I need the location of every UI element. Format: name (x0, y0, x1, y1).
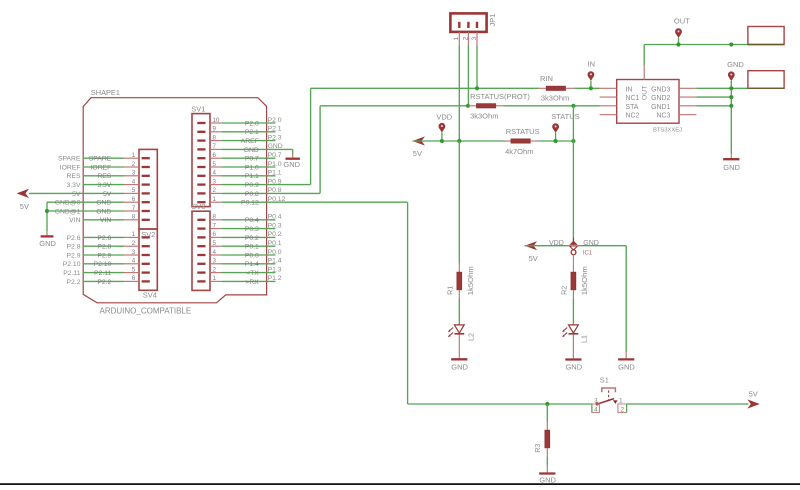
svg-text:P1.0: P1.0 (268, 161, 282, 168)
SV3 pin 4 row / net P0.0 (197, 249, 282, 260)
connector SV3 box (192, 211, 210, 290)
pin GND3 lead (679, 87, 696, 89)
svg-text:P2.9: P2.9 (97, 252, 111, 259)
svg-text:GND: GND (618, 363, 635, 372)
SV1 pin 3 row P0.9 / net P0.9 (197, 178, 310, 189)
pin GND2 lead (679, 96, 696, 98)
svg-text:SPARE: SPARE (89, 156, 112, 163)
svg-text:P0.2: P0.2 (268, 231, 282, 238)
svg-text:SV3: SV3 (191, 202, 205, 211)
svg-text:P0.0: P0.0 (268, 249, 282, 256)
svg-text:GND: GND (727, 60, 744, 69)
svg-text:OUT: OUT (674, 17, 690, 26)
svg-text:SV4: SV4 (143, 291, 157, 300)
SV3 pin 1 row / net P1.2 (197, 275, 282, 286)
SV3 pin 7 row / net P0.3 (197, 222, 282, 233)
svg-text:GND: GND (283, 160, 300, 169)
resistor R1 1k5Ohm (446, 263, 475, 298)
svg-text:P2.9: P2.9 (67, 252, 81, 259)
svg-text:6: 6 (213, 231, 217, 238)
JP1 pin 2 lead + wire (467, 32, 469, 106)
svg-text:NC1: NC1 (626, 95, 640, 102)
svg-text:3: 3 (213, 178, 217, 185)
wire net P0.8/STATUS(PROT) riser (319, 106, 321, 194)
SV2 pin 5 row P2.11 (63, 266, 150, 277)
svg-text:P2.3: P2.3 (268, 134, 282, 141)
resistor R3 (533, 422, 550, 457)
svg-text:3: 3 (213, 258, 217, 265)
SV2 pin 4 row P2.10 (63, 258, 150, 269)
svg-text:GND@1: GND@1 (55, 208, 81, 215)
svg-text:P2.11: P2.11 (94, 270, 111, 277)
svg-text:AREF: AREF (241, 138, 259, 145)
bottom border line (0, 483, 800, 485)
svg-text:R1: R1 (446, 286, 455, 295)
svg-text:P0.1: P0.1 (268, 240, 282, 247)
svg-text:GND: GND (723, 163, 740, 172)
switch S1 (596, 375, 618, 405)
svg-text:1k5Ohm: 1k5Ohm (580, 266, 589, 295)
SV1 pin 10 row P2.0 / net P2.0 (197, 117, 282, 128)
wire bottom net down to R3 (546, 404, 548, 422)
svg-text:5: 5 (213, 161, 217, 168)
SV4 pin 5 row 5V / net 5V (29, 187, 150, 198)
resistor RIN 3k3Ohm (538, 74, 574, 102)
5V supply arrow at IC1 (525, 241, 538, 263)
svg-text:4: 4 (594, 406, 598, 413)
svg-text:P0.3: P0.3 (268, 222, 282, 229)
pin OUT lead top (643, 66, 645, 80)
SV2 pin 3 row P2.9 (67, 249, 150, 260)
svg-text:L2: L2 (467, 333, 476, 341)
svg-text:RIN: RIN (540, 74, 553, 83)
svg-text:P0.7: P0.7 (245, 156, 259, 163)
svg-text:4: 4 (213, 170, 217, 177)
junction STA / STATUS riser (571, 104, 575, 108)
svg-text:3.3V: 3.3V (67, 182, 81, 189)
SV4 pin 4 row 3.3V / net 3.3V (67, 178, 150, 189)
svg-text:SV1: SV1 (191, 105, 205, 114)
wire net RSTATUS(PROT) horizontal (320, 105, 599, 107)
svg-text:RSTATUS: RSTATUS (506, 127, 540, 136)
SV3 pin 8 row / net P0.4 (197, 214, 282, 225)
wire net 5V horizontal (RSTATUS wire) (413, 140, 574, 142)
svg-text:<TX: <TX (246, 270, 259, 277)
ground symbol below R3 (539, 466, 556, 485)
svg-text:P2.11: P2.11 (63, 270, 80, 277)
svg-text:IN: IN (588, 59, 596, 68)
svg-text:VIN: VIN (69, 217, 80, 224)
svg-text:P0.8: P0.8 (245, 191, 259, 198)
svg-text:1: 1 (132, 152, 136, 159)
svg-text:NC3: NC3 (657, 113, 671, 120)
svg-text:5: 5 (132, 266, 136, 273)
wire bottom net to switch (408, 403, 592, 405)
svg-text:5V: 5V (749, 390, 758, 399)
supply symbol OUT (674, 17, 690, 45)
svg-text:4: 4 (132, 178, 136, 185)
svg-text:P0.1: P0.1 (245, 244, 259, 251)
svg-text:VDD: VDD (436, 113, 452, 122)
svg-text:5V: 5V (529, 254, 538, 263)
junction OUT (676, 42, 680, 46)
SV1 pin 8 row AREF / net P2.3 (197, 134, 282, 145)
svg-text:IC1: IC1 (583, 251, 593, 257)
svg-text:P0.12: P0.12 (241, 200, 259, 207)
wire 5V to IC1 VDD (525, 245, 569, 247)
S1 pin 4 box with stub (592, 404, 600, 413)
svg-text:2: 2 (621, 406, 625, 413)
svg-text:GND: GND (268, 143, 283, 150)
connector SV1 box (192, 114, 210, 207)
wire net GND right (696, 81, 784, 154)
svg-text:P2.8: P2.8 (97, 244, 111, 251)
LED L1 (562, 325, 589, 343)
SV1 pin 2 row P0.8 / net P0.8 (197, 187, 320, 198)
svg-text:P1.1: P1.1 (245, 173, 259, 180)
svg-text:STATUS: STATUS (551, 112, 579, 121)
pin NC3 stub (679, 114, 696, 116)
svg-text:R3: R3 (533, 444, 542, 453)
svg-text:STA: STA (626, 104, 639, 111)
svg-text:5V: 5V (103, 191, 112, 198)
svg-text:5V: 5V (72, 191, 81, 198)
supply symbol VDD (436, 113, 452, 142)
svg-text:P2.0: P2.0 (245, 120, 259, 127)
ground symbol below SV4 (39, 231, 56, 248)
svg-text:GND: GND (39, 239, 56, 248)
svg-text:P0.7: P0.7 (268, 152, 282, 159)
svg-text:P2.2: P2.2 (97, 279, 111, 286)
SV3 pin 2 row / net P1.3 (197, 266, 282, 277)
svg-text:6: 6 (132, 275, 136, 282)
svg-text:VIN: VIN (100, 217, 111, 224)
wire net OUT (644, 45, 784, 66)
ground symbol right of SV1 pin 7 (283, 149, 300, 169)
junction GND3 (729, 86, 733, 90)
SV2 pin 1 row P2.6 (67, 231, 150, 242)
LED L2 (448, 325, 476, 341)
frame SHAPE1 outline (ARDUINO_COMPATIBLE board shape) (83, 98, 266, 303)
SV4 pin 3 row RES / net RES (67, 170, 150, 181)
SV1 pin 7 row GND / net GND (197, 143, 292, 154)
svg-text:SPARE: SPARE (58, 156, 81, 163)
svg-text:P0.2: P0.2 (245, 235, 259, 242)
IC1 power symbol (VDD/GND) (549, 237, 599, 256)
svg-text:4k7Ohm: 4k7Ohm (505, 147, 533, 156)
SV4 pin 2 row IOREF / net IOREF (60, 161, 150, 172)
SV2 pin 2 row P2.8 (67, 240, 150, 251)
svg-text:3k3Ohm: 3k3Ohm (470, 112, 498, 121)
ground symbol below IC (723, 154, 740, 173)
SV4 pin 6 row GND / net GND@0 (47, 196, 150, 207)
svg-text:1: 1 (213, 275, 217, 282)
svg-text:P1.0: P1.0 (245, 164, 259, 171)
svg-text:P1.1: P1.1 (268, 170, 282, 177)
svg-text:P0.0: P0.0 (245, 252, 259, 259)
SV1 pin 9 row P2.1 / net P2.1 (197, 126, 282, 137)
pin NC2 stub (600, 114, 617, 116)
junction STATUS (554, 139, 558, 143)
wire R3 to ground (546, 457, 548, 466)
wire switch to 5V arrow right (627, 403, 749, 405)
junction JP1 pin2 / STATUS(PROT) net (466, 104, 470, 108)
JP1 pin 3 lead + wire (476, 32, 478, 88)
svg-text:JP1: JP1 (488, 14, 497, 27)
connector SV4 upper section box (139, 149, 157, 229)
svg-text:P0.4: P0.4 (245, 217, 259, 224)
wire net IN horizontal (top wire) (311, 87, 600, 89)
supply symbol STATUS (551, 112, 579, 141)
svg-text:RES: RES (67, 173, 81, 180)
svg-text:GND: GND (565, 363, 582, 372)
svg-text:SHAPE1: SHAPE1 (91, 88, 120, 97)
svg-text:GND1: GND1 (651, 104, 670, 111)
svg-text:P2.0: P2.0 (268, 117, 282, 124)
SV1 pin 4 row P1.1 / net P1.1 (197, 170, 282, 181)
svg-text:P2.10: P2.10 (94, 261, 112, 268)
svg-text:P0.12: P0.12 (268, 196, 286, 203)
wire JP1 pin1 net down to R1 (458, 141, 460, 263)
svg-text:8: 8 (132, 214, 136, 221)
svg-text:3: 3 (594, 397, 598, 404)
svg-text:1: 1 (619, 397, 623, 404)
svg-text:P2.2: P2.2 (67, 279, 81, 286)
wire net P0.12 riser down (407, 202, 409, 404)
SV4 pin 1 row SPARE / net SPARE (58, 152, 150, 163)
terminal pad OUT (rectangle) (748, 27, 784, 45)
junction OUT wire (729, 42, 733, 46)
svg-text:P0.9: P0.9 (245, 182, 259, 189)
SV1 pin 5 row P1.0 / net P1.0 (197, 161, 282, 172)
junction IN (589, 86, 593, 90)
svg-text:1: 1 (132, 231, 136, 238)
ground symbol below L1 (565, 360, 582, 372)
ground symbol for IC1 (618, 352, 635, 372)
connector JP1 (450, 13, 486, 32)
svg-text:8: 8 (213, 214, 217, 221)
SV3 pin 5 row / net P0.1 (197, 240, 282, 251)
svg-text:RES: RES (97, 173, 111, 180)
svg-text:IOREF: IOREF (60, 164, 81, 171)
svg-text:3: 3 (132, 170, 136, 177)
connector SV2 lower section box (139, 229, 157, 290)
wire R2 to LED L1 (572, 299, 574, 325)
wire R1 to LED L2 (458, 299, 460, 325)
junction VDD (440, 139, 444, 143)
junction GND2 (729, 95, 733, 99)
wire GND net vertical at SV4 (46, 202, 48, 231)
S1 pin 2 box with stub (618, 404, 627, 413)
svg-text:GND: GND (244, 147, 259, 154)
svg-text:GND: GND (96, 208, 111, 215)
5V supply arrow right (747, 390, 760, 409)
ground symbol below L2 (451, 359, 468, 371)
resistor R2 1k5Ohm (560, 266, 589, 298)
pin IN lead (600, 87, 617, 89)
lead LED L2 to ground (458, 335, 460, 359)
SV1 pin 6 row P0.7 / net P0.7 (197, 152, 282, 163)
svg-text:1: 1 (213, 196, 217, 203)
svg-text:OUT: OUT (641, 86, 648, 100)
junction wire3 corner (571, 139, 575, 143)
resistor RSTATUS 4k7Ohm (505, 127, 539, 156)
svg-text:6: 6 (132, 196, 136, 203)
SV1 pin 1 row P0.12 / net P0.12 (197, 196, 407, 207)
supply symbol GND (727, 60, 744, 81)
svg-text:1k5Ohm: 1k5Ohm (466, 266, 475, 295)
lead LED L1 to ground (572, 335, 574, 359)
SV4 pin 8 row VIN / net VIN (69, 214, 150, 225)
svg-text:R2: R2 (560, 286, 569, 295)
pin STA lead (600, 105, 617, 107)
SV2 pin 6 row P2.2 (67, 275, 150, 286)
svg-text:P2.1: P2.1 (268, 126, 282, 133)
pin NC1 stub (600, 96, 617, 98)
svg-text:RSTATUS(PROT): RSTATUS(PROT) (470, 92, 530, 101)
svg-text:8: 8 (213, 134, 217, 141)
svg-text:5V: 5V (413, 149, 422, 158)
svg-text:9: 9 (213, 126, 217, 133)
terminal pad GND (rectangle) (748, 71, 784, 89)
svg-text:GND: GND (539, 475, 556, 484)
svg-text:P2.6: P2.6 (97, 235, 111, 242)
svg-text:P2.6: P2.6 (67, 235, 81, 242)
svg-text:P2.1: P2.1 (245, 129, 259, 136)
op-amp/driver U1 BTS3XXEJ box (617, 80, 679, 124)
svg-text:2: 2 (132, 240, 136, 247)
svg-text:IN: IN (626, 86, 633, 93)
svg-text:10: 10 (213, 117, 220, 124)
SV4 pin 7 row GND / net GND@1 (47, 205, 150, 216)
svg-text:6: 6 (213, 152, 217, 159)
svg-text:2: 2 (132, 161, 136, 168)
svg-text:2: 2 (213, 187, 217, 194)
wire IC1 GND to ground (578, 246, 626, 352)
svg-text:5: 5 (213, 240, 217, 247)
5V supply arrow mid (413, 136, 426, 158)
svg-text:7: 7 (213, 222, 217, 229)
svg-text:GND3: GND3 (651, 86, 670, 93)
JP1 pin 1 lead + wire down to R1 net (458, 32, 460, 141)
svg-text:4: 4 (213, 249, 217, 256)
svg-text:P0.3: P0.3 (245, 226, 259, 233)
svg-text:GND@0: GND@0 (55, 200, 81, 207)
lead IC1 GND pin to R2 (572, 254, 574, 272)
svg-text:P0.9: P0.9 (268, 178, 282, 185)
svg-text:GND2: GND2 (651, 95, 670, 102)
junction R1 top (457, 139, 461, 143)
svg-text:L1: L1 (580, 335, 589, 343)
svg-text:P1.4: P1.4 (268, 258, 282, 265)
svg-text:7: 7 (132, 205, 136, 212)
svg-text:GND: GND (96, 200, 111, 207)
svg-text:2: 2 (213, 266, 217, 273)
svg-text:>RX: >RX (245, 279, 259, 286)
svg-text:GND: GND (451, 363, 468, 372)
wire STATUS riser down to IC1 (572, 106, 574, 238)
svg-text:5V: 5V (20, 202, 29, 211)
svg-text:3.3V: 3.3V (97, 182, 111, 189)
svg-text:P2.8: P2.8 (67, 244, 81, 251)
junction bottom net / R3 (545, 402, 549, 406)
svg-text:IOREF: IOREF (91, 164, 112, 171)
svg-text:7: 7 (213, 143, 217, 150)
junction GND1 (729, 104, 733, 108)
svg-text:S1: S1 (600, 375, 609, 384)
SV3 pin 6 row / net P0.2 (197, 231, 282, 242)
svg-text:P0.8: P0.8 (268, 187, 282, 194)
svg-text:ARDUINO_COMPATIBLE: ARDUINO_COMPATIBLE (100, 307, 192, 316)
junction GND@1 (45, 209, 49, 213)
svg-text:3: 3 (132, 249, 136, 256)
svg-text:P1.3: P1.3 (268, 266, 282, 273)
svg-text:3k3Ohm: 3k3Ohm (541, 93, 569, 102)
supply symbol IN (588, 59, 596, 88)
svg-text:P1.2: P1.2 (268, 275, 282, 282)
svg-text:P2.10: P2.10 (63, 261, 81, 268)
svg-text:P0.4: P0.4 (268, 214, 282, 221)
resistor RSTATUS(PROT) 3k3Ohm (468, 92, 530, 121)
pin GND1 lead (679, 105, 696, 107)
svg-text:NC2: NC2 (626, 113, 640, 120)
svg-text:BTS3XXEJ: BTS3XXEJ (653, 127, 682, 133)
5V supply arrow left (17, 189, 30, 211)
SV3 pin 3 row / net P1.4 (197, 258, 282, 269)
junction JP1 pin3 / IN net (475, 86, 479, 90)
svg-text:5: 5 (132, 187, 136, 194)
svg-text:P1.4: P1.4 (245, 261, 259, 268)
svg-text:4: 4 (132, 258, 136, 265)
wire net P0.9/IN riser (310, 88, 312, 184)
